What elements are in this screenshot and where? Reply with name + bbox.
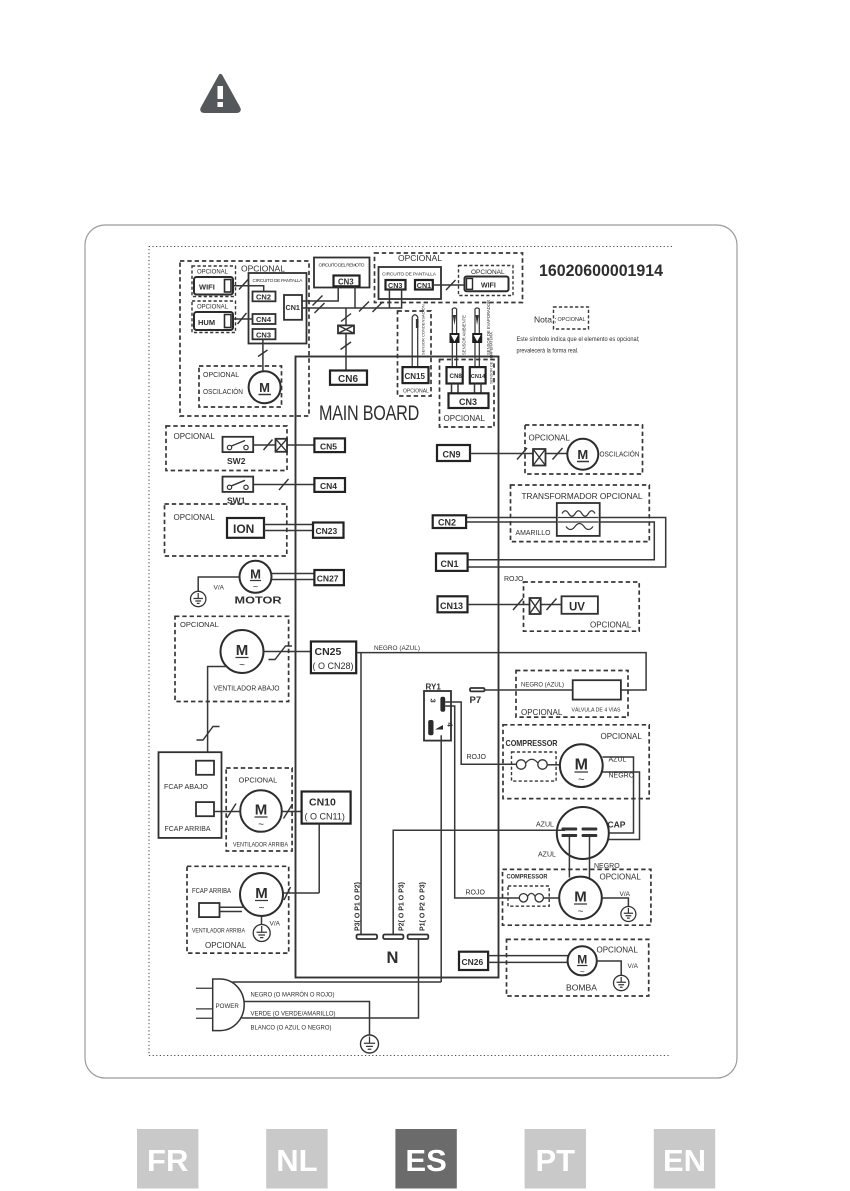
svg-text:UV: UV	[569, 602, 585, 614]
motor M compressor 1	[560, 744, 603, 787]
svg-text:~: ~	[239, 660, 245, 671]
motor M oscillation (left)	[249, 371, 281, 403]
terminal bar P3	[357, 935, 378, 940]
wire CN3 display to oscillation motor	[262, 339, 264, 371]
optional box transformador	[511, 485, 650, 542]
terminal bar P1	[408, 935, 429, 940]
svg-text:CN9: CN9	[443, 450, 461, 460]
break mark	[553, 448, 563, 460]
wire CN25 branch down to P3	[360, 653, 362, 935]
wire motor to ground (compressor 2)	[602, 898, 628, 907]
connector CN15	[403, 367, 429, 383]
language tab PT	[525, 1129, 586, 1189]
svg-text:AZUL: AZUL	[536, 822, 554, 829]
wire transformer loop to CN1 (inner)	[468, 522, 655, 560]
svg-text:CN2: CN2	[256, 293, 271, 302]
svg-text:SENSOR CONDENSACIÓN: SENSOR CONDENSACIÓN	[421, 304, 426, 355]
wire CN1 right display to WIFI	[433, 284, 465, 286]
wire CN10 down to lower fan	[318, 824, 320, 893]
break mark	[264, 440, 273, 451]
wire ventilador abajo to CN25	[264, 651, 311, 653]
svg-text:VÁLVULA DE 4 VÍAS: VÁLVULA DE 4 VÍAS	[572, 707, 621, 714]
svg-text:MOTOR: MOTOR	[235, 595, 283, 607]
break mark	[359, 302, 369, 312]
svg-text:OPCIONAL: OPCIONAL	[241, 264, 285, 274]
wire CN13 to UV	[468, 604, 562, 606]
connector CN3 (display)	[253, 329, 276, 339]
svg-text:COMPRESSOR: COMPRESSOR	[507, 874, 548, 881]
wire WIFI to CN2	[233, 286, 264, 292]
wire CN2 to transformer (pair)	[466, 518, 557, 523]
module WIFI (right)	[465, 277, 509, 292]
connector CN6	[330, 371, 367, 385]
svg-text:CN5: CN5	[320, 441, 337, 451]
connector CN13	[438, 596, 468, 612]
svg-text:OPCIONAL: OPCIONAL	[471, 269, 505, 276]
svg-text:FCAP ARRIBA: FCAP ARRIBA	[165, 824, 211, 833]
optional box compressor 1	[503, 725, 649, 799]
svg-text:CIRCUITO DE PANTALLA: CIRCUITO DE PANTALLA	[382, 272, 437, 278]
svg-text:( O CN28): ( O CN28)	[313, 661, 354, 671]
svg-text:M: M	[577, 953, 587, 967]
wire transformer loop to CN1 (outer)	[468, 518, 666, 568]
sensor thermistor symbol (CN8)	[450, 333, 460, 343]
wire P7 to valve	[485, 689, 573, 691]
svg-text:( O CN11): ( O CN11)	[305, 812, 345, 822]
break mark	[279, 479, 289, 490]
break mark	[373, 302, 383, 312]
svg-text:M: M	[259, 380, 270, 395]
optional box HUM	[192, 301, 236, 333]
svg-text:OPCIONAL: OPCIONAL	[597, 946, 639, 955]
wire CN9 to oscillation motor	[470, 453, 568, 455]
motor M bomba	[568, 946, 597, 976]
connector CN9	[437, 445, 470, 461]
svg-text:OPCIONAL: OPCIONAL	[174, 432, 216, 441]
terminal P7	[470, 688, 485, 706]
language tab ES (active)	[395, 1129, 456, 1189]
display circuit box (right) CIRCUITO DE PANTALLA	[379, 267, 442, 299]
wire FCAP to ventilador arriba	[214, 811, 241, 813]
connector CN14	[470, 367, 486, 383]
wire negro azul from CN25 to 4-way valve	[356, 653, 646, 690]
wire motor to CN10 drop	[283, 892, 319, 894]
wire motor to ground (fan)	[261, 916, 263, 925]
svg-text:CN14: CN14	[471, 374, 486, 380]
optional box oscillation (right)	[525, 425, 643, 474]
wire ION to CN23 (pair)	[264, 525, 313, 531]
dotted diagram border	[149, 247, 672, 1056]
break mark	[227, 804, 236, 819]
motor M (MOTOR)	[235, 561, 283, 607]
optional box ventilador arriba (mid)	[226, 768, 292, 851]
svg-text:OPCIONAL: OPCIONAL	[403, 389, 429, 395]
wire RY1 pin4 down to mains	[440, 735, 442, 982]
svg-text:P7: P7	[470, 695, 482, 706]
optional box UV	[524, 582, 640, 631]
language tab FR	[137, 1129, 198, 1189]
break mark	[341, 314, 351, 322]
svg-text:prevalecerá la forma real.: prevalecerá la forma real.	[517, 348, 579, 355]
svg-text:OPCIONAL: OPCIONAL	[203, 372, 239, 379]
svg-text:SENSOR AMBIENTE: SENSOR AMBIENTE	[462, 315, 467, 355]
break mark	[313, 296, 323, 306]
wires CN8/CN14 to CN3	[452, 384, 482, 394]
wire azul from P2 to CAP	[393, 830, 565, 934]
svg-text:OPCIONAL: OPCIONAL	[590, 621, 632, 630]
svg-text:~: ~	[253, 582, 258, 592]
svg-text:MAIN BOARD: MAIN BOARD	[319, 401, 419, 425]
svg-text:SW1: SW1	[227, 496, 246, 506]
svg-text:CN4: CN4	[320, 481, 337, 491]
connector plug symbol (CN13 line)	[530, 598, 541, 614]
connector plug symbol (CN6 line)	[338, 325, 354, 333]
connector CN23	[313, 523, 344, 538]
motor M ventilador arriba (lower)	[240, 873, 283, 916]
svg-text:~: ~	[580, 967, 585, 977]
ground (fan)	[253, 925, 270, 942]
svg-text:~: ~	[578, 774, 584, 786]
optional symbol box (nota)	[554, 307, 589, 329]
svg-text:~: ~	[259, 903, 265, 914]
wire CAP right plate down to compressor 2	[589, 837, 591, 878]
MAIN BOARD outline	[296, 357, 499, 978]
svg-text:CAP: CAP	[608, 820, 626, 830]
optional box valvula	[516, 671, 628, 718]
svg-text:V/A: V/A	[628, 963, 639, 970]
wire compressor1 negro to CAP	[597, 772, 640, 840]
wire BLANCO (neutral) to P1	[242, 939, 419, 1018]
wire bus down to CN6	[345, 308, 347, 371]
optional box WIFI (right)	[459, 266, 514, 296]
svg-text:OPCIONAL: OPCIONAL	[398, 253, 442, 263]
optional box CN15	[398, 311, 432, 396]
svg-text:NEGRO (AZUL): NEGRO (AZUL)	[374, 645, 420, 652]
svg-text:VENTILADOR ARRIBA: VENTILADOR ARRIBA	[192, 928, 246, 935]
display circuit box (left) CIRCUITO DE PANTALLA	[249, 273, 307, 344]
connector CN27	[314, 570, 344, 585]
svg-text:CN6: CN6	[338, 374, 358, 385]
svg-text:CN3: CN3	[459, 397, 477, 407]
connector plug symbol (SW2 line)	[276, 439, 288, 452]
ground (compressor 2)	[621, 907, 636, 922]
svg-text:POWER: POWER	[216, 1003, 240, 1010]
optional box WIFI (left)	[192, 266, 236, 297]
break mark	[284, 804, 293, 819]
svg-text:OPCIONAL: OPCIONAL	[197, 305, 229, 311]
svg-text:SENSOR DE TEMPERATURA: SENSOR DE TEMPERATURA	[490, 332, 494, 384]
connector CN1 (right display)	[415, 280, 433, 290]
svg-text:NL: NL	[276, 1143, 317, 1178]
break mark (step)	[269, 646, 293, 660]
connector CN8	[447, 367, 463, 383]
svg-text:OPCIONAL: OPCIONAL	[521, 708, 563, 717]
svg-text:FCAP ARRIBA: FCAP ARRIBA	[192, 888, 231, 895]
break mark	[517, 448, 527, 460]
svg-text:OPCIONAL: OPCIONAL	[558, 317, 587, 323]
FCAP terminal box	[159, 752, 222, 838]
svg-text:HUM: HUM	[198, 318, 215, 327]
sensor thermistor symbol (CN14)	[472, 333, 482, 343]
svg-text:NEGRO (O MARRÓN O ROJO): NEGRO (O MARRÓN O ROJO)	[251, 990, 335, 999]
motor M ventilador abajo	[221, 630, 264, 673]
svg-text:CN10: CN10	[309, 797, 336, 809]
svg-text:CN15: CN15	[405, 372, 426, 381]
capacitor FCAP arriba	[199, 903, 220, 917]
svg-text:M: M	[236, 642, 249, 659]
svg-text:CIRCUITO DEL REMOTO: CIRCUITO DEL REMOTO	[319, 263, 365, 269]
optional box SW2	[166, 426, 287, 471]
svg-text:WIFI: WIFI	[199, 283, 215, 292]
svg-text:CN23: CN23	[316, 526, 338, 536]
connector CN25 (O CN28)	[311, 642, 356, 674]
relay RY1	[424, 683, 455, 741]
svg-text:OPCIONAL: OPCIONAL	[239, 776, 278, 785]
sensor wires into CN8 (probe)	[452, 308, 456, 367]
ground (bomba)	[614, 975, 629, 990]
optional box ventilador abajo	[175, 616, 289, 701]
svg-text:CN26: CN26	[462, 957, 484, 967]
break mark	[258, 350, 268, 357]
switch SW1	[223, 477, 254, 506]
valve 4 vias	[572, 680, 621, 713]
wire remote CN3 right pin down to bus	[354, 286, 356, 308]
svg-text:AZUL: AZUL	[538, 852, 556, 859]
svg-text:CN13: CN13	[440, 601, 463, 611]
connector CN3 (right display)	[386, 280, 406, 290]
svg-text:OPCIONAL: OPCIONAL	[205, 941, 247, 950]
svg-text:CIRCUITO DE PANTALLA: CIRCUITO DE PANTALLA	[253, 278, 304, 284]
wire bomba to ground	[597, 961, 621, 976]
connector CN1 (display)	[284, 295, 302, 320]
svg-text:M: M	[250, 567, 261, 582]
wire ventilador abajo to FCAP	[208, 667, 228, 761]
svg-text:BLANCO (O AZUL O NEGRO): BLANCO (O AZUL O NEGRO)	[251, 1025, 332, 1032]
svg-text:OPCIONAL: OPCIONAL	[180, 620, 219, 629]
svg-text:ROJO: ROJO	[504, 576, 524, 583]
svg-text:3: 3	[429, 699, 438, 703]
connector CN10 (O CN11)	[302, 792, 351, 824]
ground (motor)	[191, 591, 206, 606]
svg-text:AMARILLO: AMARILLO	[516, 530, 552, 537]
svg-text:CN25: CN25	[315, 646, 342, 658]
svg-text:OPCIONAL: OPCIONAL	[174, 513, 216, 522]
wire NEGRO (line)	[233, 981, 442, 983]
svg-text:OSCILACIÓN: OSCILACIÓN	[600, 450, 640, 459]
terminal bar P2	[383, 935, 403, 940]
svg-text:~: ~	[258, 820, 264, 831]
optional group box (top-left display circuit)	[180, 261, 309, 416]
optional box bomba	[507, 939, 649, 996]
svg-text:CN3: CN3	[388, 281, 402, 290]
svg-text:ION: ION	[233, 522, 254, 536]
wire right display CN3 pin down to bus	[388, 290, 390, 309]
wire compressor1 azul to CAP	[597, 757, 634, 833]
wire RY1 pin3 to compressor 2 (rojo)	[445, 706, 520, 898]
svg-text:ES: ES	[405, 1143, 446, 1178]
svg-text:OSCILACIÓN: OSCILACIÓN	[203, 387, 243, 396]
wire SW1 to CN4	[253, 484, 314, 486]
svg-text:CN1: CN1	[441, 559, 459, 569]
break mark	[315, 303, 325, 313]
wires CN26 to bomba motor (pair)	[488, 956, 568, 963]
optional box ION	[165, 504, 287, 556]
svg-text:M: M	[255, 802, 268, 819]
break mark	[547, 599, 557, 611]
svg-text:N: N	[387, 949, 399, 967]
svg-text:OPCIONAL: OPCIONAL	[444, 414, 486, 423]
optional box CN8/CN14/CN3	[440, 360, 495, 428]
module HUM	[194, 312, 233, 330]
svg-text:FCAP ABAJO: FCAP ABAJO	[164, 782, 208, 791]
break mark	[446, 280, 456, 290]
svg-text:OPCIONAL: OPCIONAL	[600, 873, 642, 882]
svg-text:CN1: CN1	[286, 303, 300, 312]
connector plug symbol (CN9 line)	[533, 449, 546, 466]
svg-text:CN27: CN27	[317, 574, 339, 584]
svg-text:V/A: V/A	[214, 585, 225, 592]
ground (mains earth)	[361, 1035, 379, 1053]
wire CAP left plate down to compressor 2	[568, 837, 570, 878]
outer rounded frame	[85, 225, 737, 1078]
module ION	[227, 518, 264, 538]
svg-text:ROJO: ROJO	[466, 890, 486, 897]
connector CN3 (remote)	[334, 276, 360, 287]
motor M ventilador arriba	[240, 790, 282, 832]
remote circuit box CIRCUITO DEL REMOTO	[314, 258, 370, 288]
connector CN1	[436, 553, 468, 571]
svg-text:M: M	[255, 885, 268, 902]
capacitor CAP	[557, 807, 626, 859]
svg-text:OPCIONAL: OPCIONAL	[601, 732, 643, 741]
svg-text:P2( O P1 O P3): P2( O P1 O P3)	[399, 882, 406, 931]
svg-text:CN4: CN4	[256, 315, 272, 324]
optional box ventilador arriba (lower-left)	[187, 866, 289, 953]
svg-text:M: M	[574, 889, 587, 906]
svg-text:V/A: V/A	[620, 891, 631, 898]
svg-text:VERDE (O VERDE/AMARILLO): VERDE (O VERDE/AMARILLO)	[251, 1011, 336, 1018]
svg-text:~: ~	[578, 907, 584, 918]
break mark (step)	[197, 727, 220, 741]
svg-text:OPCIONAL: OPCIONAL	[529, 434, 571, 443]
sensor loop wire (CN15)	[412, 315, 418, 367]
optional box compressor 2	[503, 869, 651, 925]
sensor wires into CN14 (probe)	[475, 308, 479, 367]
wire SW2 to CN5	[253, 444, 314, 446]
svg-text:16020600001914: 16020600001914	[539, 262, 664, 280]
wire bus CN1-display lower to right display circuit	[302, 290, 402, 309]
svg-text:COMPRESSOR: COMPRESSOR	[506, 739, 558, 748]
svg-text:NEGRO (AZUL): NEGRO (AZUL)	[521, 682, 564, 689]
language tab EN	[654, 1129, 715, 1189]
connector CN4 (display)	[253, 314, 276, 324]
svg-text:NEGRO: NEGRO	[609, 773, 635, 780]
break mark	[284, 887, 291, 900]
connector CN5	[314, 438, 345, 452]
svg-text:FR: FR	[147, 1143, 188, 1178]
warning icon	[202, 76, 239, 111]
transformer T1	[557, 503, 600, 536]
svg-text:PT: PT	[535, 1143, 575, 1178]
svg-text:VENTILADOR ARRIBA: VENTILADOR ARRIBA	[233, 842, 289, 849]
optional box oscillation (left)	[199, 366, 282, 407]
language tab NL	[266, 1129, 327, 1189]
break mark	[341, 342, 352, 350]
wire MOTOR to CN27 (pair)	[272, 574, 315, 580]
svg-text:OPCIONAL: OPCIONAL	[197, 270, 229, 276]
svg-text:SW2: SW2	[227, 456, 246, 466]
optional group box (top-right display circuit)	[375, 253, 523, 303]
switch SW2	[223, 437, 254, 466]
connector CN4	[314, 478, 345, 492]
motor M oscillation (right)	[567, 439, 598, 470]
svg-text:VENTILADOR ABAJO: VENTILADOR ABAJO	[214, 684, 280, 693]
svg-text:M: M	[577, 447, 588, 462]
break mark	[238, 313, 247, 324]
svg-text:CN8: CN8	[450, 373, 463, 380]
wire VERDE (earth)	[245, 1002, 370, 1036]
svg-text:EN: EN	[663, 1143, 706, 1178]
connector CN2	[253, 292, 276, 302]
motor M compressor 2	[559, 877, 602, 920]
svg-text:Este símbolo indica que el ele: Este símbolo indica que el elemento es o…	[517, 336, 640, 343]
svg-text:CN3: CN3	[338, 278, 354, 287]
wire RY1 pin3 to compressor 1 (rojo)	[445, 702, 516, 764]
svg-text:WIFI: WIFI	[481, 283, 496, 290]
wire ventilador arriba to CN10	[282, 811, 302, 813]
connector CN3 (sensors)	[449, 393, 489, 408]
svg-text:ROJO: ROJO	[467, 754, 487, 761]
svg-text:V/A: V/A	[270, 921, 281, 928]
overload protector (compressor 2)	[508, 886, 549, 906]
svg-text:CN3: CN3	[256, 330, 271, 339]
wire HUM to CN4	[233, 318, 253, 320]
connector CN26	[459, 952, 488, 970]
svg-text:BOMBA: BOMBA	[566, 984, 598, 993]
wire protector to motor (compressor 1)	[547, 764, 560, 766]
connector CN2	[433, 515, 466, 528]
wire bus CN1-display to remote CN3 (upper)	[302, 286, 338, 301]
svg-text:TRANSFORMADOR OPCIONAL: TRANSFORMADOR OPCIONAL	[522, 491, 643, 501]
break mark	[239, 280, 248, 290]
wire protector to motor (compressor 2)	[543, 897, 559, 899]
svg-text:M: M	[575, 757, 588, 774]
overload protector (compressor 1)	[512, 752, 557, 781]
svg-text:CN1: CN1	[417, 281, 431, 290]
module WIFI (left)	[194, 277, 233, 295]
module UV	[562, 596, 598, 614]
break mark	[513, 599, 523, 611]
wires capacitor to motor (pair)	[220, 907, 244, 911]
svg-text:CN2: CN2	[438, 518, 456, 528]
power plug	[196, 979, 244, 1031]
wire MOTOR to ground	[198, 577, 239, 591]
svg-text:P1( O P2 O P3): P1( O P2 O P3)	[420, 882, 427, 931]
